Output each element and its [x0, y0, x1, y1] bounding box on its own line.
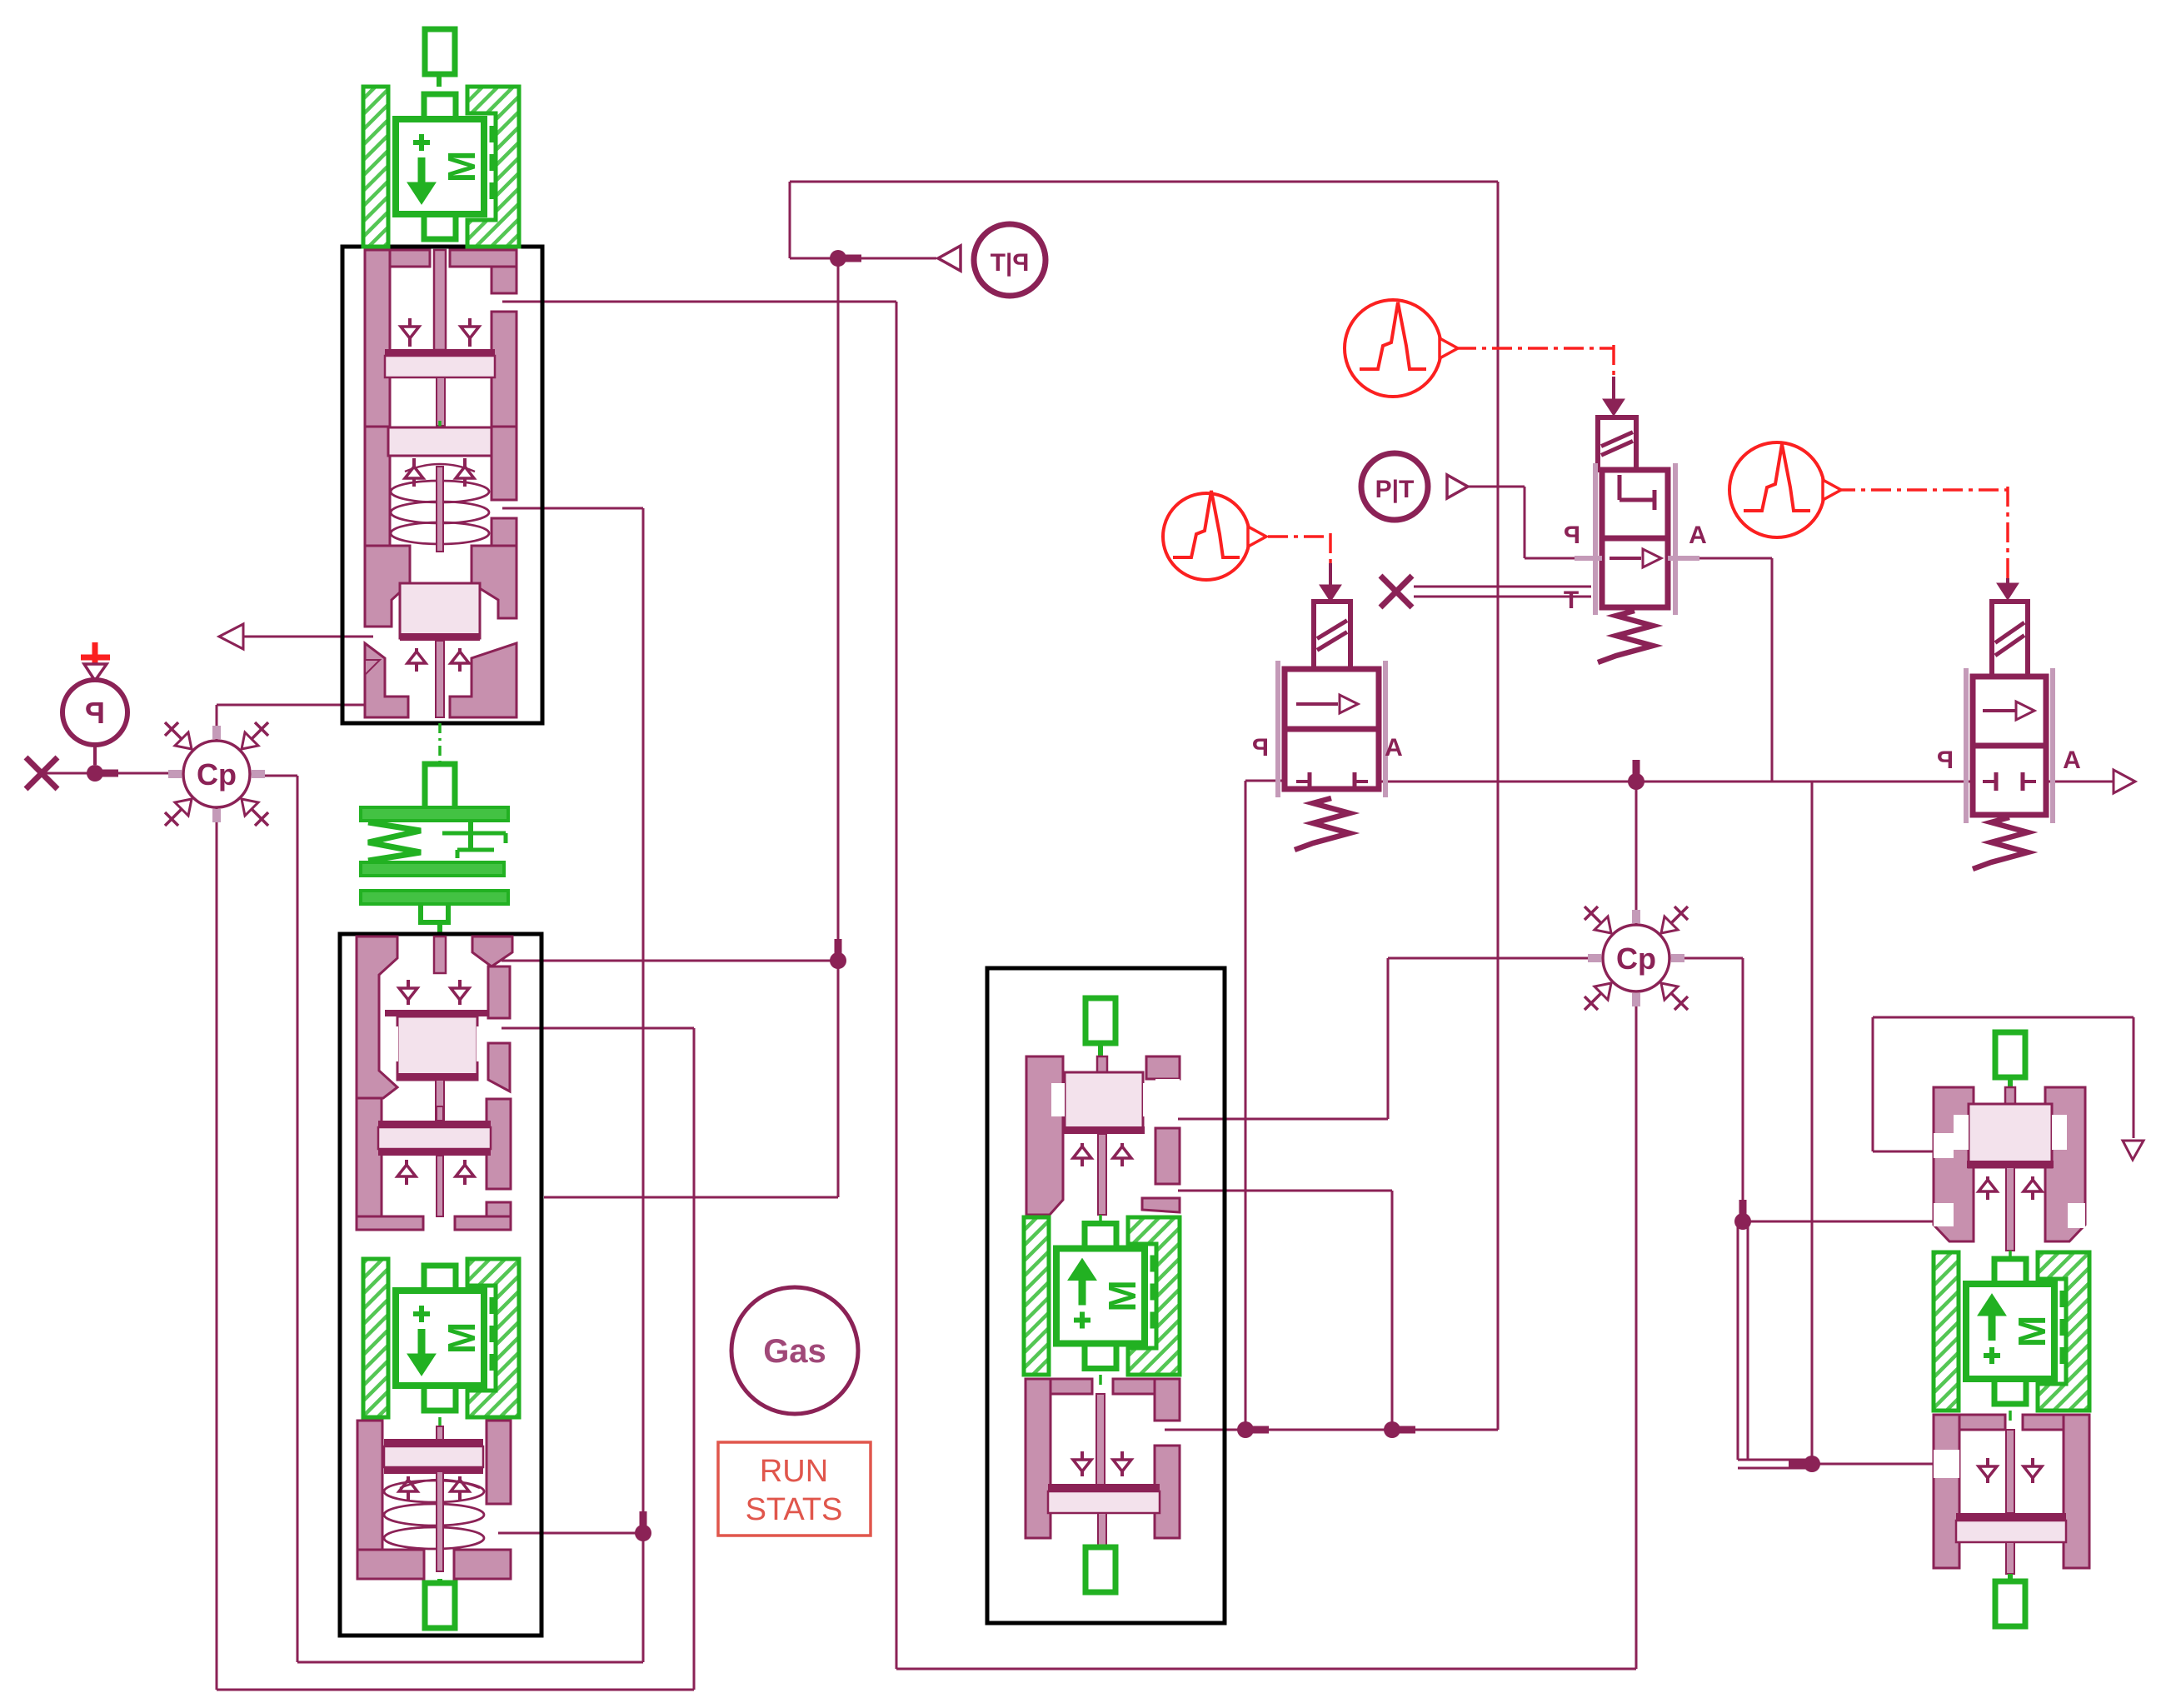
svg-text:A: A	[1689, 522, 1707, 549]
svg-text:Cp: Cp	[1616, 941, 1656, 976]
svg-text:P: P	[85, 696, 105, 730]
svg-text:P|T: P|T	[1375, 476, 1415, 503]
svg-text:P|T: P|T	[991, 249, 1030, 277]
svg-text:T: T	[1564, 587, 1579, 614]
svg-text:A: A	[1385, 734, 1403, 762]
svg-text:P: P	[1564, 522, 1580, 549]
svg-text:P: P	[1937, 747, 1954, 774]
svg-text:Gas: Gas	[763, 1333, 826, 1370]
svg-text:RUN: RUN	[760, 1454, 828, 1489]
svg-text:Cp: Cp	[197, 757, 237, 792]
svg-text:M: M	[440, 1322, 483, 1354]
svg-text:P: P	[1252, 734, 1269, 762]
svg-text:STATS: STATS	[746, 1492, 843, 1527]
svg-text:M: M	[440, 151, 483, 182]
svg-text:A: A	[2063, 747, 2081, 774]
svg-text:M: M	[1100, 1280, 1144, 1311]
svg-text:M: M	[2010, 1316, 2054, 1347]
